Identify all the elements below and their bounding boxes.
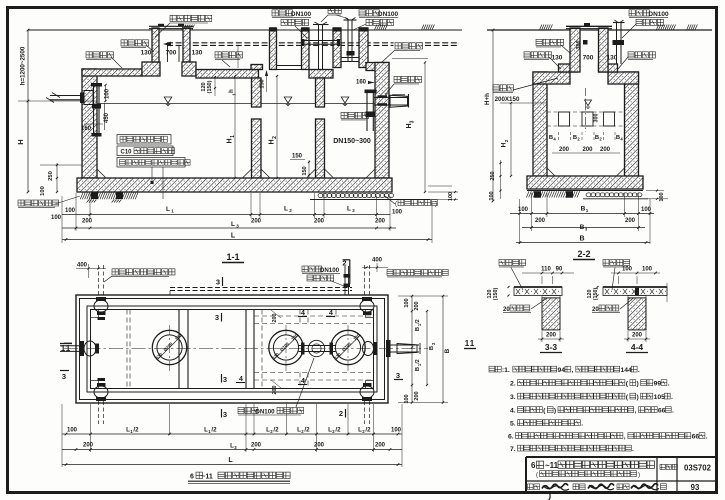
svg-text:130: 130 bbox=[141, 50, 152, 57]
detail 4-4: top dim line bbox=[611, 272, 660, 274]
leader from boxes to slab bbox=[151, 167, 153, 183]
svg-text:200: 200 bbox=[546, 333, 557, 339]
title block frame bbox=[526, 456, 717, 458]
svg-text:L: L bbox=[347, 206, 351, 213]
plan outlet fitting right bbox=[373, 342, 377, 355]
plan label 进水管三个方向任选 bbox=[112, 269, 175, 275]
tank 1-1: left low top slab (cleaning cover area) bbox=[82, 69, 142, 76]
detail 4-4: mortar bed joint bbox=[628, 296, 646, 298]
2-2 interior hidden lines bbox=[547, 111, 625, 113]
svg-text:94: 94 bbox=[558, 367, 566, 374]
svg-text:130: 130 bbox=[192, 50, 203, 57]
H1 dim (chamber1) bbox=[234, 76, 236, 178]
svg-text:100: 100 bbox=[51, 215, 62, 221]
precast ring inner lines (drive-over option) in neck1 bbox=[167, 45, 169, 62]
detail 4-4: wall bbox=[628, 298, 646, 330]
svg-text:200: 200 bbox=[632, 333, 643, 339]
plan top-left branch fitting bbox=[96, 297, 106, 301]
svg-text:C10: C10 bbox=[120, 150, 132, 156]
2-2 bottom dim rows bbox=[510, 213, 654, 215]
plan outer wall rectangles bbox=[76, 295, 388, 403]
svg-text:,: , bbox=[572, 367, 574, 374]
inlet pipe outside (short stub with break) bbox=[50, 95, 84, 97]
svg-text:150: 150 bbox=[292, 154, 303, 160]
svg-text:/2: /2 bbox=[365, 427, 371, 434]
svg-text:6: 6 bbox=[531, 461, 536, 470]
svg-text:1: 1 bbox=[66, 344, 71, 353]
2-2 extension lines bbox=[519, 199, 521, 244]
plan corner pilasters bbox=[91, 310, 99, 318]
2-2 thin base line bbox=[527, 190, 643, 192]
svg-text:2.: 2. bbox=[510, 381, 516, 388]
signature scribble 1 bbox=[542, 484, 568, 489]
svg-text:,: , bbox=[624, 434, 626, 441]
svg-text:110: 110 bbox=[541, 267, 551, 273]
2-2 H2 dim bbox=[510, 103, 512, 176]
inlet tee fitting through left wall bbox=[80, 93, 84, 104]
plan right area slab layout dashed lines bbox=[254, 315, 373, 317]
label 双层加锁井盖 bbox=[170, 15, 212, 21]
svg-text:.: . bbox=[632, 446, 634, 453]
svg-text:250: 250 bbox=[490, 171, 496, 180]
svg-text:~11: ~11 bbox=[545, 461, 559, 470]
svg-text:93: 93 bbox=[691, 483, 700, 492]
svg-text:144: 144 bbox=[621, 367, 633, 374]
svg-text:100: 100 bbox=[65, 208, 76, 214]
svg-text:/2: /2 bbox=[335, 427, 341, 434]
svg-text:3: 3 bbox=[216, 278, 220, 287]
detail 4-4: bottom 200 dim bbox=[624, 338, 650, 340]
svg-text:H: H bbox=[269, 139, 276, 144]
tank 1-1: neckB left wall bbox=[270, 28, 277, 70]
svg-text:H: H bbox=[16, 139, 25, 144]
plan bottom dim row 2 bbox=[62, 449, 402, 451]
svg-text:200: 200 bbox=[375, 443, 386, 449]
plan left chamber joint dashed bbox=[126, 310, 128, 389]
svg-text:100: 100 bbox=[489, 191, 495, 200]
label 现浇盖板 (1-1 right) bbox=[394, 42, 422, 51]
section 2-2: ground line bbox=[487, 29, 712, 31]
svg-text:/2: /2 bbox=[133, 427, 139, 434]
detail 4-4: precast slab label bbox=[603, 260, 630, 266]
outlet horizontal pipe through right wall bbox=[374, 97, 409, 99]
signature scribble 3 bbox=[631, 484, 658, 489]
svg-text:(150): (150) bbox=[207, 80, 213, 93]
pipe support label 管道支架 bbox=[341, 112, 369, 118]
H3 dim (right of tank) bbox=[424, 63, 426, 193]
svg-text:1: 1 bbox=[230, 135, 236, 138]
svg-text:100: 100 bbox=[392, 210, 403, 216]
svg-text:3: 3 bbox=[62, 372, 66, 381]
boxed note: C10 plain concrete cushion bbox=[117, 146, 173, 156]
svg-text:B: B bbox=[429, 346, 435, 350]
plan centerline horizontal bbox=[64, 348, 428, 350]
chamber water lines bbox=[97, 103, 252, 105]
tank 1-1: neck1 left base block bbox=[142, 62, 160, 76]
svg-text:): ) bbox=[638, 472, 640, 479]
2-2 label 通气管DN100 第二方案 bbox=[629, 10, 649, 16]
svg-text:2-2: 2-2 bbox=[577, 249, 590, 259]
precast ring caps atop neck walls bbox=[270, 27, 276, 31]
tank 1-1: interior wall 2 (with flow hole) bbox=[316, 78, 325, 107]
stray pen stroke below border bbox=[548, 492, 551, 500]
svg-text:DN100: DN100 bbox=[320, 267, 340, 274]
2-2 vent pipe scheme2 bbox=[616, 23, 618, 64]
signature row: 设计 bbox=[617, 484, 629, 490]
neckB opening cover lines bbox=[277, 65, 302, 67]
svg-text:300: 300 bbox=[576, 41, 582, 50]
label: used where no groundwater bbox=[18, 200, 59, 206]
right gravel 100 dims bbox=[428, 185, 452, 187]
svg-text:2: 2 bbox=[272, 136, 278, 139]
2-2 gravel right (groundwater) bbox=[586, 193, 591, 197]
svg-text:): ) bbox=[554, 408, 556, 415]
svg-text:DN150~300: DN150~300 bbox=[333, 138, 371, 145]
svg-text:DN100: DN100 bbox=[291, 11, 312, 18]
svg-text:200: 200 bbox=[251, 219, 262, 225]
2-2 water triangle bbox=[585, 100, 592, 106]
svg-text:200: 200 bbox=[82, 219, 93, 225]
svg-text:105: 105 bbox=[654, 394, 666, 401]
2-2 bottom slab bbox=[527, 176, 643, 189]
svg-text:2: 2 bbox=[339, 409, 343, 418]
manhole circle 2 bbox=[269, 330, 303, 364]
svg-text:/2: /2 bbox=[304, 427, 310, 434]
svg-text:h: h bbox=[229, 89, 235, 93]
2-2 left dims H+h bbox=[492, 30, 494, 201]
tank 1-1: middle precast top slab (to wall1) bbox=[196, 70, 259, 79]
svg-text:/2: /2 bbox=[415, 359, 421, 363]
svg-text:): ) bbox=[435, 202, 437, 208]
water level triangle chamber3 bbox=[341, 97, 349, 103]
tank 1-1: neckC left wall bbox=[333, 28, 341, 68]
svg-text:100: 100 bbox=[622, 267, 633, 273]
svg-text:.: . bbox=[706, 434, 708, 441]
svg-text:200: 200 bbox=[600, 147, 611, 153]
svg-text:66: 66 bbox=[692, 434, 700, 441]
svg-text:/2: /2 bbox=[211, 427, 217, 434]
svg-text:200: 200 bbox=[414, 301, 420, 310]
detail 3-3: bottom 200 dim bbox=[538, 338, 564, 340]
svg-text:200: 200 bbox=[251, 443, 262, 449]
vent pipe scheme2 (right, small) bbox=[347, 21, 349, 63]
svg-text:(150): (150) bbox=[493, 288, 499, 301]
plan bottom extension lines bbox=[61, 404, 63, 467]
svg-text:250: 250 bbox=[48, 171, 54, 181]
inlet drop pipe inside chamber1 bbox=[93, 86, 95, 133]
boxed note: reinforced concrete bottom slab bbox=[117, 135, 171, 145]
svg-text:200: 200 bbox=[559, 147, 570, 153]
svg-text:700: 700 bbox=[583, 55, 594, 62]
2-2 label 通气孔 200X150 bbox=[493, 85, 513, 91]
plan top-right branch fitting bbox=[362, 297, 372, 301]
2-2 100 dim right bbox=[646, 190, 664, 192]
svg-text:130: 130 bbox=[607, 55, 618, 62]
vent fitting circle (scheme1) bbox=[308, 340, 324, 356]
note line 1 bbox=[489, 366, 501, 372]
tank 1-1: neckB right wall bbox=[302, 28, 310, 70]
2-2 manhole cover bbox=[566, 25, 612, 27]
plan partition wall 1 bbox=[178, 310, 180, 389]
dim 250 (left bottom) bbox=[56, 163, 58, 192]
svg-text:3: 3 bbox=[223, 410, 227, 419]
svg-text:): ) bbox=[637, 381, 639, 388]
plan label 出水管三个方向任选 bbox=[387, 270, 448, 276]
svg-text:.: . bbox=[671, 394, 673, 401]
svg-text:4.: 4. bbox=[510, 408, 516, 415]
plan label 通气管DN100 第二方案 bbox=[302, 266, 322, 272]
detail 3-3: precast slab label bbox=[499, 260, 526, 266]
dim 160 (inlet) bbox=[84, 123, 103, 125]
boxed note: compacted soil layer bbox=[117, 158, 185, 168]
svg-text:7.: 7. bbox=[510, 446, 516, 453]
svg-text:L: L bbox=[284, 206, 288, 213]
plan partition wall 2 bbox=[245, 310, 247, 389]
svg-text:3.: 3. bbox=[510, 394, 516, 401]
svg-text:DN100: DN100 bbox=[255, 409, 275, 416]
svg-text:100: 100 bbox=[40, 186, 46, 196]
signature scribble 2 bbox=[588, 484, 614, 489]
svg-text:(150): (150) bbox=[593, 288, 599, 301]
svg-text:90: 90 bbox=[556, 267, 563, 273]
svg-text:/2: /2 bbox=[273, 427, 279, 434]
2-2 black pads bbox=[534, 191, 541, 198]
plan bottom dim row 3 bbox=[62, 464, 402, 466]
plan bottom-left branch fitting bbox=[96, 397, 106, 401]
detail 4-4: right extension line bbox=[666, 283, 668, 302]
tank 1-1: neck1 right base block bbox=[182, 62, 196, 76]
plan top-left riser dashed bbox=[98, 265, 100, 297]
2-2 tank outer right wall bbox=[625, 72, 639, 177]
2-2 top slab right part bbox=[608, 72, 639, 84]
section 1-1: ground line bbox=[28, 29, 462, 31]
plan bottom-right branch fitting bbox=[362, 397, 372, 401]
svg-text:DN100: DN100 bbox=[378, 11, 399, 18]
svg-text:200: 200 bbox=[314, 443, 325, 449]
svg-text:,: , bbox=[635, 408, 637, 415]
manhole cover (double-layer locking) over neck1 bbox=[149, 25, 193, 27]
svg-text:200: 200 bbox=[535, 218, 546, 224]
svg-text:6.: 6. bbox=[508, 434, 514, 441]
soil tufts above ground (1-1) bbox=[182, 25, 184, 30]
svg-text:3-3: 3-3 bbox=[545, 342, 558, 352]
interior wall 1 raised block bbox=[251, 65, 263, 70]
signature row: 校对 bbox=[573, 484, 585, 490]
H2 dim (chamber2) bbox=[276, 76, 278, 178]
label 预制井圈 (1-1) bbox=[121, 40, 149, 46]
svg-text:~11: ~11 bbox=[201, 474, 213, 481]
svg-text:B: B bbox=[579, 236, 584, 243]
tank 1-1: slab over interior wall 2 bbox=[309, 70, 333, 79]
detail 4-4: slab joint over wall bbox=[635, 288, 639, 295]
plan vent scheme2 dashed run above top wall bbox=[170, 287, 352, 289]
left dim column: h=1200~2500 / H bbox=[27, 30, 29, 192]
2-2 soil hatch band left (no groundwater) bbox=[526, 191, 529, 197]
water level triangle chamber2 bbox=[284, 97, 292, 103]
svg-text:150: 150 bbox=[260, 79, 266, 88]
detail 4-4: precast slab with X hatch bbox=[603, 287, 667, 296]
svg-text:160: 160 bbox=[356, 80, 367, 86]
dim 100 (inlet) bbox=[105, 85, 107, 101]
svg-text:200: 200 bbox=[375, 219, 386, 225]
svg-text:130: 130 bbox=[552, 55, 563, 62]
vent connection pipe between circles 2-3 bbox=[299, 345, 336, 347]
tank 1-1: right cast-in-place slab bbox=[366, 63, 389, 71]
svg-text:99: 99 bbox=[654, 381, 662, 388]
tank 1-1: interior wall 1 (with flow hole) bbox=[252, 78, 262, 107]
svg-text:6: 6 bbox=[190, 474, 194, 481]
svg-text:B: B bbox=[415, 327, 421, 331]
svg-text:450: 450 bbox=[104, 112, 110, 123]
detail 3-3: mortar bed joint bbox=[542, 296, 560, 298]
outlet riser pipe inside chamber3 bbox=[366, 92, 368, 131]
svg-text:100: 100 bbox=[642, 267, 653, 273]
svg-text:300: 300 bbox=[594, 114, 600, 123]
haunch chamfers at wall bottoms bbox=[97, 169, 106, 178]
tank 1-1: neck1 right wall bbox=[183, 28, 190, 62]
dim 450 (inlet) bbox=[104, 103, 106, 130]
svg-text:): ) bbox=[637, 394, 639, 401]
svg-text:100: 100 bbox=[404, 298, 410, 307]
svg-text:100: 100 bbox=[105, 88, 111, 99]
svg-text:H+h: H+h bbox=[484, 93, 491, 105]
svg-text:B: B bbox=[415, 367, 421, 371]
manhole circle 3 bbox=[331, 330, 365, 364]
label 预制盖板 (1-1 mid) bbox=[215, 52, 243, 58]
plan vent scheme2 riser pipe bbox=[344, 266, 346, 295]
svg-text:100: 100 bbox=[448, 192, 454, 201]
2-2 neck right wall bbox=[599, 28, 609, 72]
svg-text:h=1200~2500: h=1200~2500 bbox=[20, 46, 27, 85]
page label 页 bbox=[661, 484, 667, 490]
svg-text:200: 200 bbox=[582, 147, 593, 153]
soil hatch band under slab left (no groundwater) bbox=[80, 193, 83, 200]
outlet wall sleeve bbox=[378, 95, 388, 98]
signature row: 审核 bbox=[528, 484, 540, 490]
water level triangle chamber1 bbox=[164, 97, 172, 103]
svg-text:200: 200 bbox=[625, 218, 636, 224]
svg-text:200X150: 200X150 bbox=[495, 96, 520, 103]
1-1 bottom dim row 1: L1 L2 L2 bbox=[62, 214, 390, 216]
2-2 label 预制井圈 bbox=[536, 39, 564, 45]
2-2 tank outer left wall bbox=[533, 72, 547, 177]
sleeve label 预埋套管 bbox=[394, 76, 422, 82]
svg-text::1.: :1. bbox=[502, 367, 510, 374]
svg-text:/2: /2 bbox=[415, 319, 421, 323]
gravel cushion under right part (groundwater case) bbox=[318, 194, 323, 198]
black pads under slab bbox=[91, 192, 98, 199]
vent pipe scheme1 assembly bbox=[318, 25, 320, 70]
svg-text:3: 3 bbox=[396, 371, 400, 380]
svg-text:.: . bbox=[672, 408, 674, 415]
label 管罩 bbox=[328, 7, 341, 13]
2-2 partition holes bbox=[559, 112, 570, 126]
svg-text:160: 160 bbox=[81, 126, 92, 132]
svg-text:1: 1 bbox=[470, 339, 475, 348]
2-2 label 预制盖板 bbox=[628, 52, 656, 58]
extension lines under 1-1 bbox=[61, 196, 63, 243]
svg-text:66: 66 bbox=[658, 408, 666, 415]
2-2 haunch chamfers bbox=[547, 168, 555, 176]
detail 3-3: precast slab with X hatch bbox=[514, 287, 562, 296]
svg-text:L: L bbox=[166, 206, 170, 213]
svg-text:3: 3 bbox=[223, 375, 227, 384]
svg-text:(: ( bbox=[395, 202, 397, 208]
tank 1-1: outer left wall bbox=[82, 69, 97, 178]
1-1 bottom dim row 2: L3 bbox=[62, 227, 396, 229]
svg-text:100: 100 bbox=[659, 192, 665, 201]
dashed alternative slab level line bbox=[167, 42, 458, 44]
svg-text:L: L bbox=[231, 221, 235, 228]
svg-text:200: 200 bbox=[414, 391, 420, 400]
svg-text:1-1: 1-1 bbox=[226, 252, 239, 262]
svg-text:4-4: 4-4 bbox=[631, 342, 644, 352]
plan label 通气管DN100 第一方案 bbox=[238, 408, 258, 414]
svg-text:200: 200 bbox=[83, 443, 94, 449]
svg-text:DN100: DN100 bbox=[648, 11, 669, 18]
2-2 top slab left part bbox=[533, 72, 570, 84]
tank 1-1: outer right wall bbox=[375, 63, 389, 179]
svg-text:H: H bbox=[227, 138, 234, 143]
tank 1-1: bottom slab bbox=[77, 178, 392, 192]
svg-text:L: L bbox=[228, 457, 233, 464]
svg-text:.: . bbox=[638, 367, 640, 374]
svg-text:150: 150 bbox=[302, 166, 308, 175]
svg-text:L: L bbox=[231, 233, 236, 240]
atlas no. label 图集号 bbox=[660, 464, 677, 469]
tank 1-1: neckC right wall bbox=[359, 28, 368, 68]
dashed line left arrow bbox=[163, 42, 171, 47]
label 清洗盖板 (1-1 left) bbox=[86, 52, 114, 58]
svg-text:3: 3 bbox=[215, 313, 219, 322]
svg-text:03S702: 03S702 bbox=[684, 464, 712, 473]
svg-text:.: . bbox=[668, 381, 670, 388]
vent cap scheme1 bbox=[313, 24, 329, 26]
svg-text:400: 400 bbox=[77, 263, 88, 269]
svg-text:100: 100 bbox=[391, 428, 402, 434]
svg-text:.: . bbox=[581, 421, 583, 428]
plan inlet fitting left bbox=[60, 345, 80, 347]
detail 3-3: top dim line bbox=[522, 272, 574, 274]
tank 1-1: neck1 left wall bbox=[152, 28, 159, 62]
svg-text:B: B bbox=[444, 348, 451, 353]
2-2 label 清洗盖板 bbox=[524, 52, 552, 58]
detail 3-3: wall bbox=[542, 298, 560, 330]
2-2 neck base blocks bbox=[559, 64, 578, 72]
svg-text:3: 3 bbox=[410, 120, 416, 123]
plan right-side dim column bbox=[411, 296, 413, 403]
svg-text:200: 200 bbox=[314, 219, 325, 225]
label 通气管DN100 第一方案 bbox=[272, 10, 292, 16]
svg-text:200: 200 bbox=[272, 386, 278, 395]
1-1 bottom dim row 3: L bbox=[62, 239, 432, 241]
plan bottom dim row 1 bbox=[62, 433, 402, 435]
svg-text:100: 100 bbox=[67, 428, 78, 434]
2-2 250 dim bbox=[500, 160, 502, 199]
manhole circle 1 bbox=[152, 330, 186, 364]
label 通气管DN100 第二方案 (1-1) bbox=[359, 10, 379, 16]
2-2 neck left wall bbox=[570, 28, 580, 72]
neckC opening cover lines bbox=[341, 57, 359, 59]
svg-text:5.: 5. bbox=[510, 421, 516, 428]
svg-text:400: 400 bbox=[372, 258, 383, 264]
outlet reducer taper bbox=[390, 95, 408, 107]
svg-text:700: 700 bbox=[166, 50, 177, 57]
